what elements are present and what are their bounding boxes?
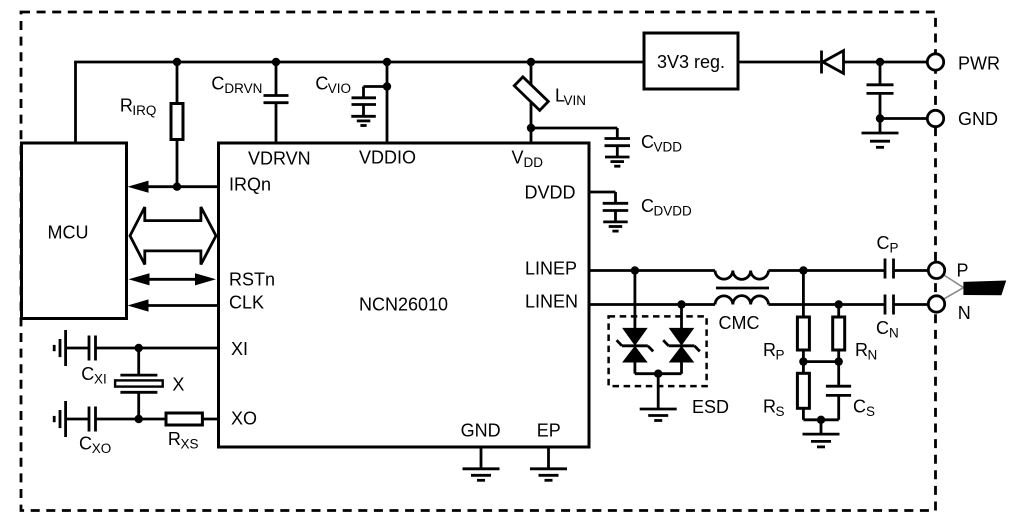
svg-text:XS: XS (181, 437, 199, 452)
svg-text:C: C (853, 396, 866, 416)
svg-text:CLK: CLK (229, 292, 264, 312)
node R_P bottom (799, 357, 807, 365)
resistor R_IRQ (171, 62, 183, 187)
ground for C_DVDD (603, 222, 628, 231)
wire IRQn with arrow to MCU (128, 181, 219, 193)
svg-text:C: C (877, 233, 890, 253)
svg-text:R: R (120, 95, 133, 115)
wire VDD vertical (530, 62, 533, 143)
svg-text:DRVN: DRVN (224, 81, 262, 96)
node PWR cap top (876, 58, 884, 66)
diode D1 (822, 51, 844, 74)
capacitor C_S (826, 362, 851, 420)
svg-text:DD: DD (524, 155, 544, 170)
common mode choke CMC top winding (715, 271, 769, 280)
C_N value label (876, 318, 899, 341)
svg-text:C: C (876, 318, 889, 338)
pin label VDD (512, 148, 544, 171)
capacitor C_DRVN (264, 62, 289, 143)
wire termination bottom (803, 418, 838, 421)
node XO crystal (135, 415, 143, 423)
node VDDIO branch to C_VIO (383, 82, 391, 90)
svg-text:IRQ: IRQ (132, 103, 156, 118)
terminal N (928, 296, 944, 312)
R_XS value label (168, 429, 199, 452)
node LINEP to R_P (799, 266, 807, 274)
svg-text:X: X (172, 374, 184, 394)
svg-text:RSTn: RSTn (229, 269, 275, 289)
wire CLK with arrow to MCU (128, 299, 219, 311)
svg-text:EP: EP (537, 420, 561, 440)
svg-text:ESD: ESD (692, 397, 729, 417)
svg-text:VDRVN: VDRVN (248, 149, 311, 169)
resistor R_XS (166, 413, 219, 425)
svg-text:XI: XI (94, 372, 107, 387)
svg-text:R: R (763, 340, 776, 360)
C_P value label (877, 233, 899, 256)
svg-text:V: V (512, 148, 524, 168)
wire TVS common (635, 372, 682, 375)
C_XO value label (79, 433, 111, 456)
MCU block (22, 143, 127, 319)
svg-text:VDDIO: VDDIO (359, 148, 416, 168)
svg-text:C: C (641, 132, 654, 152)
CMC bottom winding (715, 296, 769, 305)
ground for C_VDD (605, 157, 630, 166)
svg-text:VIO: VIO (328, 81, 351, 96)
svg-text:C: C (315, 73, 328, 93)
svg-text:C: C (81, 364, 94, 384)
svg-text:IRQn: IRQn (229, 175, 271, 195)
terminal PWR (927, 54, 943, 70)
capacitor C_XI (89, 336, 219, 361)
3V3 regulator block (644, 33, 738, 89)
svg-text:CMC: CMC (719, 313, 760, 333)
crystal X (115, 348, 163, 419)
svg-text:DVDD: DVDD (654, 204, 693, 219)
ground for C_VIO (351, 116, 376, 125)
wire LINEP (589, 269, 715, 272)
wire diode to PWR (843, 61, 928, 64)
wire LINEN (589, 303, 715, 306)
R_S value label (763, 396, 785, 419)
svg-text:S: S (776, 404, 785, 419)
wire termination mid (803, 360, 838, 363)
ground for ESD (640, 374, 677, 421)
CMC core (716, 287, 769, 290)
ground for termination (803, 420, 840, 447)
svg-text:P: P (776, 348, 785, 363)
svg-text:PWR: PWR (958, 54, 1000, 74)
svg-text:P: P (957, 261, 969, 281)
node LINEN to right TVS (677, 300, 685, 308)
svg-text:VDD: VDD (654, 139, 683, 154)
R_N value label (855, 340, 877, 363)
C_XI value label (81, 364, 107, 387)
capacitor C_VIO (352, 87, 388, 117)
ground at GND pin (463, 447, 500, 480)
svg-text:S: S (866, 404, 875, 419)
node LINEP to left TVS (631, 266, 639, 274)
ESD dashed box (609, 316, 707, 386)
svg-text:N: N (889, 326, 899, 341)
wire MCU top to rail (74, 62, 77, 143)
R_P value label (763, 340, 785, 363)
C_VIO value label (315, 73, 351, 96)
svg-text:GND: GND (958, 109, 998, 129)
wire LINEP right of CMC (769, 269, 885, 272)
sideways ground at C_XI (54, 330, 89, 366)
resistor R_N (833, 305, 845, 362)
node VDD branch to C_VDD (527, 124, 535, 132)
svg-text:XO: XO (231, 409, 257, 429)
C_DVDD value label (641, 196, 692, 219)
node TVS common (654, 370, 662, 378)
svg-text:R: R (855, 340, 868, 360)
capacitor PWR bulk (867, 62, 894, 119)
svg-text:N: N (958, 303, 971, 323)
svg-text:R: R (763, 396, 776, 416)
svg-text:VIN: VIN (564, 93, 587, 108)
wire top supply rail (74, 61, 644, 64)
capacitor C_N (885, 295, 929, 315)
IC U1 NCN26010 box (219, 143, 590, 447)
C_S value label (853, 396, 875, 419)
wire regulator to diode (738, 61, 820, 64)
terminal GND (927, 110, 943, 126)
svg-text:XO: XO (92, 441, 112, 456)
svg-text:P: P (890, 241, 899, 256)
C_DRVN value label (211, 73, 262, 96)
terminal P (928, 262, 944, 278)
TVS diode left (617, 271, 654, 374)
TVS diode right (663, 305, 700, 374)
node R_N bottom (835, 357, 843, 365)
node on rail at VDDIO (383, 58, 391, 66)
cable (twisted pair) (963, 281, 1006, 296)
node PWR cap bottom (876, 114, 884, 122)
wire GND terminal (880, 117, 928, 120)
C_VDD value label (641, 132, 682, 155)
bus double arrow MCU to IC (130, 207, 216, 265)
capacitor C_XO (89, 407, 166, 432)
wire RSTn double arrow (129, 273, 217, 285)
svg-text:C: C (211, 73, 224, 93)
svg-text:N: N (868, 348, 878, 363)
cable leads (943, 275, 964, 300)
node termination ground (817, 416, 825, 424)
svg-text:NCN26010: NCN26010 (359, 295, 448, 315)
node on rail at L_VIN (527, 58, 535, 66)
node LINEN to R_N (835, 300, 843, 308)
capacitor C_DVDD on DVDD pin (589, 192, 628, 222)
svg-text:C: C (641, 196, 654, 216)
node on rail at C_DRVN (272, 58, 280, 66)
svg-text:R: R (168, 429, 181, 449)
svg-text:LINEP: LINEP (525, 258, 577, 278)
L_VIN value label (555, 86, 586, 109)
wire LINEN right of CMC (769, 303, 885, 306)
svg-text:XI: XI (231, 339, 248, 359)
R_IRQ value label (120, 95, 157, 118)
svg-text:MCU: MCU (48, 223, 89, 243)
ground at EP pin (530, 447, 567, 480)
svg-text:LINEN: LINEN (525, 291, 578, 311)
svg-text:3V3 reg.: 3V3 reg. (657, 52, 725, 72)
node junction R_IRQ to IRQn (173, 183, 181, 191)
svg-text:C: C (79, 433, 92, 453)
resistor R_S (797, 362, 809, 420)
node on rail at R_IRQ (173, 58, 181, 66)
node XI crystal (135, 344, 143, 352)
capacitor C_P (885, 259, 928, 279)
ground at PWR cap (862, 119, 899, 148)
wire VDDIO vertical (386, 62, 389, 143)
resistor R_P (797, 271, 809, 362)
sideways ground at C_XO (54, 401, 89, 437)
svg-text:GND: GND (461, 420, 501, 440)
svg-text:DVDD: DVDD (525, 182, 576, 202)
inductor bead L_VIN (514, 77, 548, 111)
capacitor C_VDD (531, 128, 630, 157)
